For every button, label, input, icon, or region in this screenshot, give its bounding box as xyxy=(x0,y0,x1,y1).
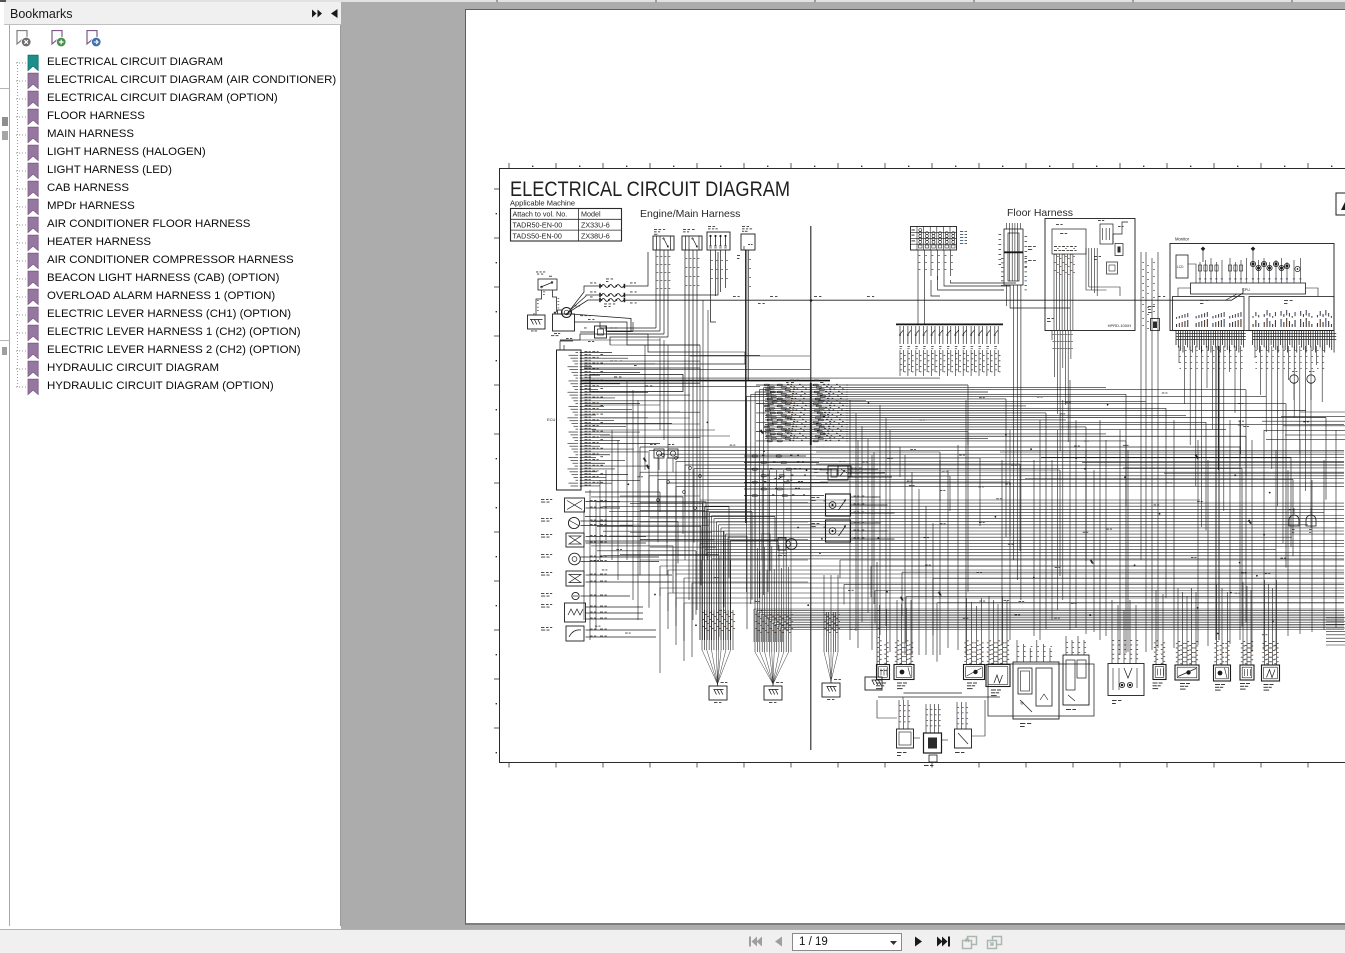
monitor unit outline xyxy=(1170,244,1334,331)
ECU fan-out wires xyxy=(582,351,940,486)
top strip tab separators xyxy=(0,0,1345,3)
wire key switch to battery xyxy=(536,290,559,315)
bookmark: AIR CONDITIONER COMPRESSOR HARNESS xyxy=(0,252,341,270)
bookmark: OVERLOAD ALARM HARNESS 1 (OPTION) xyxy=(0,288,341,306)
engine harness vertical drops xyxy=(584,300,746,640)
pressure switch relay PR1 xyxy=(814,466,892,480)
bottom connector CN11 xyxy=(1262,580,1280,691)
buzzers below monitor xyxy=(1290,371,1315,400)
scattered wire labels xyxy=(593,393,1308,636)
relay R3 xyxy=(741,226,755,250)
left device 8 (boxD) xyxy=(541,626,656,641)
svg-text:Floor Harness: Floor Harness xyxy=(1007,207,1073,219)
engine-floor junction connector rows xyxy=(756,380,848,446)
monitor connector CN-A xyxy=(1173,297,1245,331)
lower connector LC1 xyxy=(897,700,914,756)
bottom connector CN10 xyxy=(1240,582,1254,690)
svg-text:LCD: LCD xyxy=(1177,265,1184,269)
wire bundle below relay R1 xyxy=(560,250,670,345)
svg-text:TADR50-EN-00: TADR50-EN-00 xyxy=(513,221,563,230)
first page button (disabled) xyxy=(748,935,763,948)
fuse box grid xyxy=(911,227,968,251)
wire bundle below fuse block FB1 xyxy=(711,250,728,322)
bookmark: BEACON LIGHT HARNESS (CAB) (OPTION) xyxy=(0,270,341,288)
starter relay R2 xyxy=(682,229,702,250)
switch panel bar xyxy=(896,324,1003,376)
left device 2 (circle) xyxy=(541,517,633,528)
document viewer gray background xyxy=(341,0,1345,929)
caution plate icon xyxy=(1336,193,1345,215)
right mesh horizontals (between bands) xyxy=(840,452,1344,662)
bookmark: ELECTRICAL CIRCUIT DIAGRAM xyxy=(0,54,341,72)
bookmark: LIGHT HARNESS (LED) xyxy=(0,162,341,180)
ground symbol G3 xyxy=(822,683,840,700)
bookmark tree xyxy=(0,2,341,902)
junction dots xyxy=(600,402,1274,634)
HPRD drop bundle xyxy=(1052,331,1073,621)
svg-text:TADS50-EN-00: TADS50-EN-00 xyxy=(513,231,562,240)
left device 1 (boxX) xyxy=(541,498,620,512)
pressure switch relay PR2 xyxy=(812,494,895,516)
fusible link row 3 xyxy=(566,297,637,315)
wire bundle below starter relay R2 xyxy=(685,250,699,490)
left tab strip xyxy=(0,25,10,926)
svg-text:Attach to vol. No.: Attach to vol. No. xyxy=(513,210,568,219)
monitor pin comb xyxy=(1176,331,1336,353)
monitor connector CN-B xyxy=(1249,297,1334,331)
ground wire bundle 3 xyxy=(824,575,841,683)
bookmark: HEATER HARNESS xyxy=(0,234,341,252)
svg-text:HPRD-100/H: HPRD-100/H xyxy=(1108,323,1131,328)
ground symbol G2 xyxy=(764,686,782,703)
bookmark: ELECTRIC LEVER HARNESS 2 (CH2) (OPTION) xyxy=(0,342,341,360)
bottom toolbar xyxy=(0,929,1345,953)
svg-text:Applicable Machine: Applicable Machine xyxy=(510,199,575,208)
starter motor M xyxy=(557,306,581,318)
schematic frame border xyxy=(500,169,1345,763)
svg-text:ECU: ECU xyxy=(547,417,556,422)
pressure switch relay PR3 xyxy=(812,520,895,542)
LCD module xyxy=(1176,255,1196,283)
bookmarks panel xyxy=(0,2,341,926)
lever lock switch box xyxy=(1108,600,1144,704)
panel toolbar: goto bookmark icon xyxy=(86,30,102,49)
previous page button (disabled) xyxy=(772,935,784,948)
ground symbol G1 xyxy=(709,686,727,703)
solenoid block assembly xyxy=(1013,640,1059,727)
svg-text:CPU: CPU xyxy=(1242,288,1250,292)
buzzer pair xyxy=(1289,508,1316,533)
CPU board xyxy=(1178,283,1318,297)
left device 6 (circleS) xyxy=(541,592,630,599)
ground G0 xyxy=(528,313,546,331)
HPRD-100/H controller box xyxy=(1045,219,1135,331)
panel menu icon xyxy=(311,8,324,19)
fuse box output wires xyxy=(918,250,1016,324)
wire mesh band (upper) xyxy=(747,385,1345,653)
mid horizontal ties right of divider xyxy=(816,447,1060,576)
bookmark: ELECTRIC LEVER HARNESS (CH1) (OPTION) xyxy=(0,306,341,324)
bookmarks panel header xyxy=(4,2,341,25)
cab harness connector CN-M xyxy=(1148,306,1160,331)
horn wires xyxy=(762,534,778,560)
svg-text:Monitor: Monitor xyxy=(1175,237,1190,242)
component group outline xyxy=(988,664,1094,716)
sub-harness junction rows xyxy=(744,455,832,497)
applicable machine table xyxy=(510,199,622,242)
bookmark: MPDr HARNESS xyxy=(0,198,341,216)
bottom connector CN9 xyxy=(1214,584,1231,691)
left device 5 (boxHG) xyxy=(541,571,672,586)
lower connector LC2 (dark) xyxy=(924,704,942,766)
twisted pair marks xyxy=(643,430,1252,602)
bookmark: ELECTRICAL CIRCUIT DIAGRAM (OPTION) xyxy=(0,90,341,108)
left device 4 (circle2) xyxy=(541,553,659,565)
small relay box K1 xyxy=(838,461,851,476)
glow relay R1 xyxy=(653,229,674,250)
bookmark: MAIN HARNESS xyxy=(0,126,341,144)
right side long verticals xyxy=(966,252,1336,655)
frame zone tick marks xyxy=(494,163,1345,768)
harness section labels xyxy=(640,207,1190,242)
lower junction wires xyxy=(877,693,1000,740)
bus branch label marks xyxy=(733,295,874,298)
additional long verticals right half xyxy=(858,420,1230,655)
last page button xyxy=(936,935,951,948)
harness boundary divider line xyxy=(810,226,812,750)
isolated ground symbol G4 (center) xyxy=(865,562,887,690)
previous view button (disabled) xyxy=(961,934,978,950)
upper-mid horizontal ties xyxy=(560,340,810,436)
monitor drop wires xyxy=(1179,346,1324,640)
battery output bus wires xyxy=(571,314,700,345)
battery BAT xyxy=(551,312,575,337)
wire mesh band (sweep to grounds) xyxy=(660,566,1344,673)
right edge wire bundle (upper) xyxy=(1262,412,1345,440)
left component long wires xyxy=(640,503,808,583)
bookmark: HYDRAULIC CIRCUIT DIAGRAM (OPTION) xyxy=(0,378,341,396)
monitor indicator lamps xyxy=(1198,247,1301,284)
svg-text:Engine/Main Harness: Engine/Main Harness xyxy=(640,208,740,220)
panel toolbar: delete bookmark icon xyxy=(16,30,32,49)
relay block RB2 xyxy=(1063,636,1089,710)
ECU heavy CAN wire xyxy=(581,375,830,392)
main horizontal bus (y=300) xyxy=(625,288,1243,304)
junction node circles xyxy=(657,454,702,510)
horn component xyxy=(778,538,797,556)
bookmark: CAB HARNESS xyxy=(0,180,341,198)
ground wire bundle 1 xyxy=(702,560,735,686)
panel toolbar: new bookmark icon xyxy=(51,30,67,49)
bottom connector CN7 xyxy=(1153,590,1167,689)
ground wire bundle 2 xyxy=(755,470,793,686)
slow blow fuse xyxy=(580,326,700,352)
bottom connector CN3 xyxy=(964,598,985,689)
collapse panel icon xyxy=(329,8,340,19)
bookmark: ELECTRICAL CIRCUIT DIAGRAM (AIR CONDITIONER) xyxy=(0,72,341,90)
diode box D2 xyxy=(668,444,678,472)
next view button (disabled) xyxy=(986,934,1003,950)
svg-text:ZX38U-6: ZX38U-6 xyxy=(581,231,610,240)
fusible link row 1 xyxy=(570,252,648,310)
next page button xyxy=(913,935,925,948)
bottom connector CN4 xyxy=(986,596,1010,696)
wire mesh band (lower-mid) xyxy=(700,500,1344,640)
PDF page xyxy=(465,9,1345,925)
left device 3 (boxX2) xyxy=(541,533,646,547)
mid verticals xyxy=(850,400,940,655)
svg-text:ZX33U-6: ZX33U-6 xyxy=(581,221,610,230)
ECU connector block xyxy=(547,338,582,490)
diode box D1 xyxy=(650,444,664,470)
bookmark: FLOOR HARNESS xyxy=(0,108,341,126)
bookmark: ELECTRIC LEVER HARNESS 1 (CH2) (OPTION) xyxy=(0,324,341,342)
top chrome strip xyxy=(0,0,1345,2)
left mesh horizontals (ECU lower fan) xyxy=(585,492,775,637)
bottom connector CN2 xyxy=(894,600,914,689)
bookmark: AIR CONDITIONER FLOOR HARNESS xyxy=(0,216,341,234)
bottom connector CN1 xyxy=(876,605,890,689)
page number combo box xyxy=(792,933,902,951)
fusible link row 2 xyxy=(568,252,718,312)
wire mesh band (middle) xyxy=(640,447,1344,627)
wire pair below relay R3 (B+ feed) xyxy=(737,250,751,523)
floor harness loom xyxy=(999,223,1036,300)
floor harness drop wires xyxy=(1007,300,1071,600)
diagram title xyxy=(510,178,790,201)
left device 7 (boxZ) xyxy=(541,603,643,622)
fuse block FB1 xyxy=(707,226,730,250)
key switch SW1 xyxy=(536,272,557,291)
wire duct below ECU top xyxy=(584,352,745,380)
right edge wire bundle (lower) xyxy=(1326,618,1345,645)
bookmark: LIGHT HARNESS (HALOGEN) xyxy=(0,144,341,162)
lower connector LC3 xyxy=(955,702,972,753)
bottom connector CN8 xyxy=(1175,588,1199,690)
svg-text:Model: Model xyxy=(581,210,601,219)
bookmark: HYDRAULIC CIRCUIT DIAGRAM xyxy=(0,360,341,378)
